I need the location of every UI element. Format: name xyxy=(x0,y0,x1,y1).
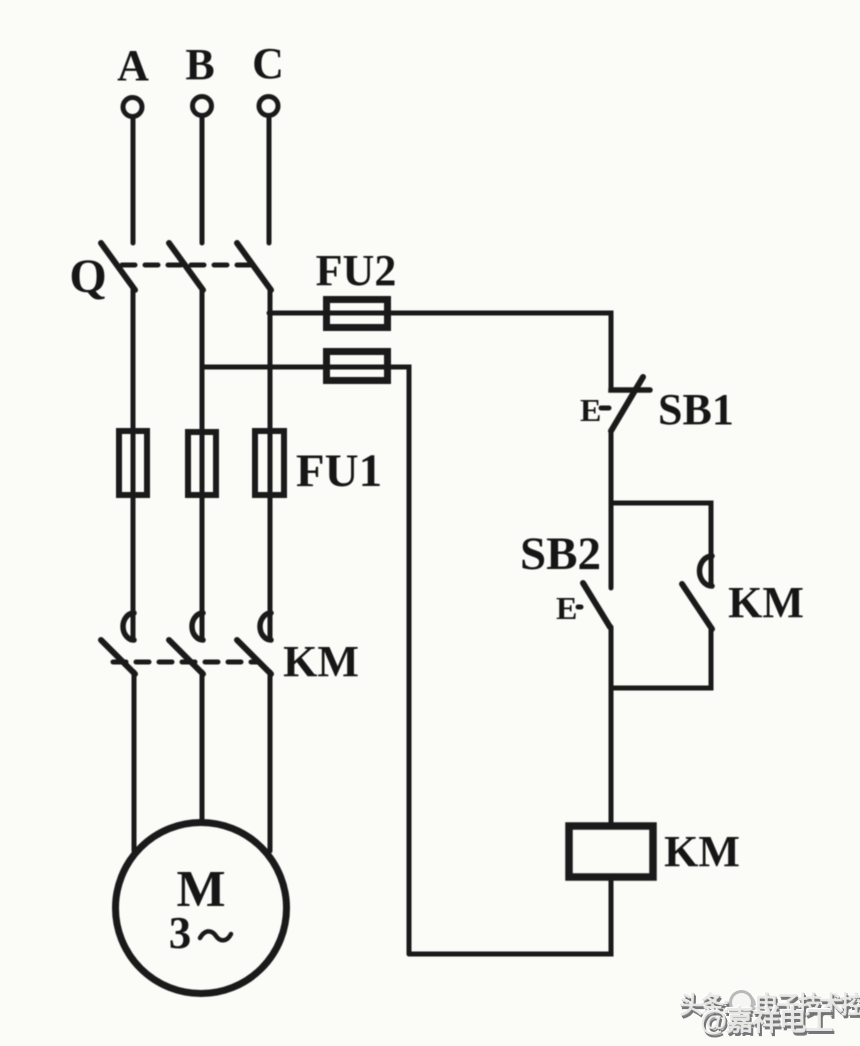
node C terminal circle xyxy=(259,97,278,116)
wire FU2 upper fuse input from phase C xyxy=(269,311,325,316)
wire phase B switch through FU1 to contactor xyxy=(200,288,205,639)
motor M circle xyxy=(116,823,287,994)
contactor KM pole B fixed-contact hook xyxy=(192,613,203,640)
watermark line 2 xyxy=(700,999,832,1039)
contactor KM pole A fixed-contact hook xyxy=(123,613,134,640)
svg-text:KM: KM xyxy=(728,578,804,627)
button SB2 actuator dot xyxy=(578,605,581,610)
button SB1 movable bridge xyxy=(611,377,643,431)
contactor KM pole C blade xyxy=(237,640,271,674)
fuse FU2 lower body xyxy=(327,352,388,381)
switch Q pole C blade xyxy=(237,243,271,290)
fuse FU2 upper body xyxy=(327,300,388,328)
wire phase B from terminal to switch Q xyxy=(200,118,205,243)
svg-text:B: B xyxy=(185,40,214,89)
contactor KM pole C fixed-contact hook xyxy=(260,613,271,640)
wire phase B KM to motor xyxy=(200,672,205,822)
button SB1 fixed contact bar xyxy=(611,389,650,390)
contact KM aux blade xyxy=(682,584,712,629)
wire FU2 lower fuse input from phase B xyxy=(202,365,325,370)
svg-text:C: C xyxy=(252,39,284,88)
wire phase A switch through FU1 to contactor xyxy=(131,288,136,639)
button SB2 movable blade xyxy=(583,583,610,627)
wire node to SB2 xyxy=(609,503,614,588)
wire branch node to KM aux contact xyxy=(611,503,711,585)
svg-text:3: 3 xyxy=(169,908,192,958)
contactor KM linkage dashed line xyxy=(113,660,258,665)
fuse FU1 pole C body xyxy=(255,431,284,495)
wire phase A KM to motor xyxy=(132,672,137,851)
wire coil KM to bottom return xyxy=(409,877,611,954)
svg-text:A: A xyxy=(117,41,149,90)
svg-text:SB1: SB1 xyxy=(658,385,734,434)
watermark line 1 xyxy=(679,985,860,1020)
svg-text:FU2: FU2 xyxy=(316,246,397,295)
wire SB1 to node xyxy=(609,431,614,503)
wire SB2 to coil KM xyxy=(609,627,614,824)
svg-text:FU1: FU1 xyxy=(296,445,382,497)
wire phase C from terminal to switch Q xyxy=(267,118,272,243)
wire phase C switch through FU1 to contactor xyxy=(268,288,273,639)
svg-text:E: E xyxy=(556,590,577,626)
wire phase A from terminal to switch Q xyxy=(131,119,136,243)
node A terminal circle xyxy=(123,98,142,117)
button SB1 actuator dash xyxy=(601,406,609,411)
switch Q pole A blade xyxy=(101,243,135,290)
switch Q linkage dashed line xyxy=(122,263,254,268)
svg-text:SB2: SB2 xyxy=(520,528,601,580)
wire phase C KM to motor xyxy=(268,672,273,851)
switch Q pole B blade xyxy=(169,243,203,290)
fuse FU2 lower element wire through xyxy=(325,365,391,370)
svg-text:KM: KM xyxy=(283,637,359,686)
contactor KM pole B blade xyxy=(169,640,203,674)
fuse FU2 upper element wire through xyxy=(325,311,391,316)
fuse FU1 pole B body xyxy=(188,432,216,495)
wire KM aux to lower junction xyxy=(611,629,711,688)
wire FU2 upper output to control branch xyxy=(391,313,611,389)
contactor KM pole A blade xyxy=(101,640,135,674)
wire FU2 lower output to return conductor xyxy=(391,367,409,954)
coil KM body xyxy=(569,826,653,877)
svg-text:Q: Q xyxy=(69,250,106,303)
svg-text:E: E xyxy=(580,392,601,428)
svg-text:KM: KM xyxy=(664,827,740,876)
node B terminal circle xyxy=(193,97,212,116)
fuse FU1 pole A body xyxy=(119,431,147,495)
contact KM aux fixed-contact hook xyxy=(700,556,713,586)
